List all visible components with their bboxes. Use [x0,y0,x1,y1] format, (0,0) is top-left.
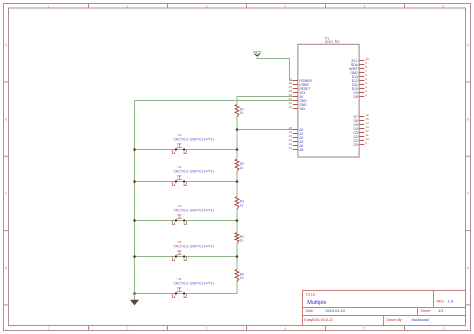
svg-text:5: 5 [364,4,366,8]
ground [130,294,139,306]
tactile switch U4 TACTILE SWITCH-PTH [172,240,214,260]
junction on GND rail at switch row 1 [133,148,136,151]
svg-text:D8: D8 [354,95,358,99]
svg-text:Multiple: Multiple [307,300,326,306]
wire ladder column segment 1 [236,117,238,159]
tactile switch U2 TACTILE SWITCH-PTH [172,165,214,185]
connector P1 UNO_R3 body [298,44,359,157]
digital header upper pin numbers [365,57,369,97]
svg-text:VIN: VIN [299,107,305,111]
wire switch row 3 [135,220,238,222]
svg-text:1.0: 1.0 [448,299,454,304]
svg-text:VCC: VCC [253,49,262,54]
svg-text:5: 5 [364,326,366,330]
resistor R2 1k [235,159,244,171]
svg-text:1k: 1k [240,276,244,280]
wire node 1 to pin A0 [237,129,293,131]
svg-text:1/1: 1/1 [438,308,444,313]
analog header pin stubs [293,130,298,150]
junction on ladder column at switch row 2 [236,180,239,183]
svg-text:1k: 1k [240,111,244,115]
svg-text:TACTILE SWITCH-PTH: TACTILE SWITCH-PTH [174,245,214,249]
svg-text:4: 4 [285,4,287,8]
wire switch row 4 [135,256,238,258]
svg-text:UNO_R3: UNO_R3 [325,40,340,44]
svg-text:A5: A5 [299,148,303,152]
tactile switch U3 TACTILE SWITCH-PTH [172,204,214,224]
wire VCC to POWER pin [257,56,293,81]
svg-text:Sheet:: Sheet: [421,309,431,313]
digital header lower pin names [354,115,358,147]
wire GND rail horizontal to GND pin [135,100,293,102]
svg-text:32: 32 [289,105,293,109]
analog header pin names [299,128,303,152]
svg-text:EasyEDA V5.8.22: EasyEDA V5.8.22 [304,318,333,322]
title block values [307,299,454,322]
junction on ladder column at switch row 1 [236,148,239,151]
wire ladder column segment 2 [236,172,238,197]
title block labels [304,293,444,322]
power header pin numbers [289,77,293,109]
digital header lower pin numbers [365,113,369,145]
svg-text:6: 6 [443,4,445,8]
resistor R4 1k [235,233,244,244]
svg-text:TACTILE SWITCH-PTH: TACTILE SWITCH-PTH [174,170,214,174]
svg-text:4: 4 [285,326,287,330]
svg-text:1k: 1k [240,203,244,207]
svg-text:TACTILE SWITCH-PTH: TACTILE SWITCH-PTH [174,209,214,213]
junction on GND rail at switch row 4 [133,255,136,258]
svg-text:1: 1 [48,4,50,8]
wire switch row 5 [135,293,238,295]
resistor R1 1k [235,105,244,117]
svg-text:Drawn By:: Drawn By: [387,318,403,322]
svg-text:bkolicoski: bkolicoski [412,317,429,322]
title block [303,291,466,326]
wire ladder column segment 5 [236,282,238,294]
svg-text:1k: 1k [240,166,244,170]
digital header upper pin stubs [359,61,364,97]
svg-text:1: 1 [48,326,50,330]
power header pin stubs [293,81,298,109]
tactile switch U1 TACTILE SWITCH-PTH [172,133,214,153]
svg-text:2019-01-10: 2019-01-10 [326,309,345,313]
resistor R5 1k [235,269,244,281]
svg-text:1k: 1k [240,238,244,242]
svg-text:2: 2 [127,4,129,8]
wire 5V pin to ladder top [237,97,293,105]
svg-text:TITLE:: TITLE: [306,293,317,297]
net flag VCC [253,49,262,56]
resistor R3 1k [235,197,244,209]
svg-text:REV.: REV. [437,300,445,304]
svg-text:TACTILE SWITCH-PTH: TACTILE SWITCH-PTH [174,138,214,142]
junction on ladder column at switch row 3 [236,219,239,222]
svg-text:2: 2 [127,326,129,330]
wire GND rail vertical [134,101,136,294]
svg-text:23: 23 [289,146,293,150]
junction on GND rail at switch row 3 [133,219,136,222]
wire switch row 2 [135,181,238,183]
digital header lower pin stubs [359,117,364,145]
power header pin names [299,79,312,111]
junction node to A0 on ladder column [236,128,239,131]
wire ladder column segment 3 [236,209,238,233]
junction on ladder column at switch row 4 [236,255,239,258]
digital header upper pin names [349,59,358,99]
svg-text:Date:: Date: [306,309,314,313]
wire switch row 1 [135,149,238,151]
svg-text:3: 3 [206,326,208,330]
svg-text:6: 6 [443,326,445,330]
svg-text:3: 3 [206,4,208,8]
analog header pin numbers [289,126,293,150]
tactile switch U5 TACTILE SWITCH-PTH [172,277,214,297]
junction on GND rail at switch row 5 [133,292,136,295]
svg-text:TACTILE SWITCH-PTH: TACTILE SWITCH-PTH [174,282,214,286]
junction on GND rail at switch row 2 [133,180,136,183]
wire ladder column segment 4 [236,243,238,269]
svg-text:D0: D0 [354,143,358,147]
